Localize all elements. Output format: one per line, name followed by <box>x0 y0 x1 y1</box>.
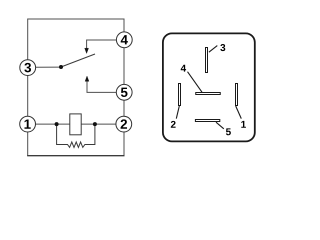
pin slot 3 <box>206 48 208 73</box>
arrowhead down toward blade <box>85 48 89 53</box>
wire pin4 arm <box>87 40 117 49</box>
pointer line 3 <box>209 46 217 53</box>
wire pin5 arm <box>87 81 116 93</box>
arrowhead up <box>85 76 89 81</box>
pin slot 1 <box>236 84 238 106</box>
resistor branch path <box>57 124 95 147</box>
junction dot common <box>59 65 63 69</box>
junction dot left <box>55 122 59 126</box>
terminal circle 1 <box>20 116 36 132</box>
label 3 <box>220 44 225 51</box>
pointer line 5 <box>216 122 224 129</box>
coil K1 <box>70 114 81 135</box>
terminal circle 5 <box>116 84 132 100</box>
switch blade <box>61 54 95 67</box>
junction dot right <box>93 122 97 126</box>
wire bottom emphasised <box>27 155 124 157</box>
label 1 <box>241 121 246 128</box>
pointer line 1 <box>236 106 242 119</box>
pin slot 5 <box>195 120 219 122</box>
pointer line 4 <box>188 72 203 93</box>
relay schematic outer box <box>28 19 124 156</box>
coil wire pin1 to pin2 <box>36 123 116 125</box>
terminal circle 4 <box>116 32 132 48</box>
label 5 <box>226 128 231 135</box>
pin slot 2 <box>179 84 181 106</box>
label 2 <box>171 121 176 128</box>
pointer line 2 <box>176 106 179 119</box>
pin slot 4 <box>196 93 221 95</box>
wire from pin3 to common node <box>36 66 61 68</box>
label 4 <box>181 65 186 72</box>
terminal circle 2 <box>116 116 132 132</box>
relay base outline (pin view) <box>163 33 255 141</box>
terminal circle 3 <box>20 60 36 76</box>
